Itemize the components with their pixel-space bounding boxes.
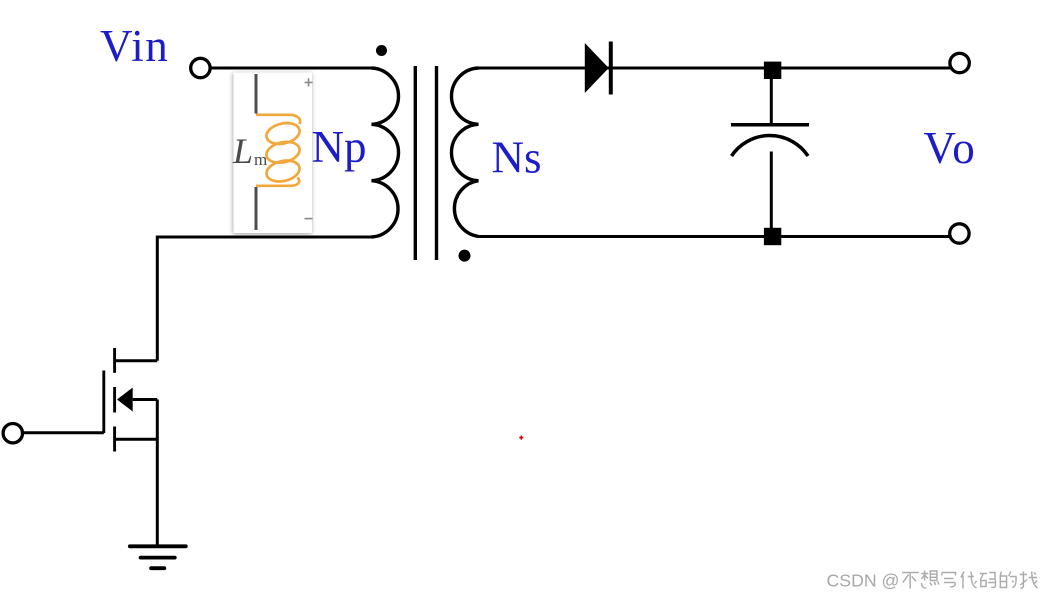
diode D1 [585,42,611,95]
svg-text:m: m [254,150,267,169]
polarity dot secondary [459,250,471,262]
transistor Q1 NMOS [104,348,158,452]
capacitor C1 [731,79,809,228]
polarity minus mark [305,218,313,220]
watermark char xiang [921,571,939,588]
svg-text:L: L [232,131,253,171]
watermark char ma [980,573,996,588]
svg-text:CSDN @: CSDN @ [827,571,900,591]
watermark char bu [902,573,919,589]
wire gate input [24,431,104,434]
watermark char wo [1020,572,1038,589]
wire Vin to primary top [212,67,373,70]
inductor Lm lead bottom [255,187,258,230]
inductor Lm coil [256,115,302,186]
watermark char de [1000,572,1016,588]
svg-text:Np: Np [312,122,367,172]
wire secondary bottom to output terminal [479,235,951,238]
junction node top (cap to top rail) [764,62,781,79]
wire secondary top to output terminal [479,67,951,70]
label Ns [492,133,542,183]
cursor mark red cross [519,436,523,440]
polarity dot primary [376,45,387,56]
watermark char xie [942,573,956,588]
terminal Vo+ [950,53,969,72]
junction node bottom (cap to bottom rail) [764,228,781,245]
inductor Lm magnetizing inductance (inset image) [232,73,313,234]
terminal Vin [191,58,210,77]
label Np [312,122,367,172]
terminal gate input [3,424,22,443]
svg-text:Vin: Vin [100,21,169,71]
watermark char dai [961,572,977,589]
polarity plus mark [305,78,313,86]
svg-text:Ns: Ns [492,133,542,183]
label Vo [924,123,977,173]
transformer secondary winding Ns [451,68,478,237]
wire primary bottom to MOSFET drain [157,237,371,361]
ground [130,546,186,568]
transformer core [415,66,436,260]
transformer primary winding Np [372,68,399,237]
svg-text:Vo: Vo [924,123,977,173]
wire source to ground [156,400,159,547]
watermark CSDN [827,571,1038,591]
node Vin label [100,21,169,71]
inductor Lm lead top [255,74,258,114]
terminal Vo- [950,224,969,243]
